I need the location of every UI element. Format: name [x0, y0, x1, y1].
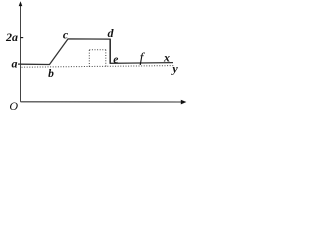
dotted rectangle right vertical [105, 50, 107, 67]
tick 2a [21, 37, 24, 39]
svg-text:d: d [108, 26, 115, 40]
y-axis arrowhead [19, 1, 23, 6]
svg-text:x: x [163, 51, 170, 65]
drop segment d-e (thicker) [109, 39, 111, 63]
svg-text:c: c [63, 28, 69, 42]
tick a [18, 63, 21, 65]
dotted baseline (level a) to y [22, 66, 175, 68]
svg-text:2a: 2a [5, 30, 18, 44]
x-axis [21, 101, 182, 103]
svg-text:O: O [9, 99, 18, 113]
svg-text:y: y [170, 62, 178, 76]
svg-text:b: b [48, 68, 54, 80]
x-axis arrowhead [181, 100, 187, 105]
y-axis [20, 5, 22, 102]
dotted rectangle left vertical [88, 50, 90, 67]
svg-text:a: a [12, 56, 18, 70]
dotted rectangle top horizontal [89, 49, 106, 51]
solid curve a-b-c-d-e-x [21, 39, 173, 65]
svg-text:e: e [113, 54, 118, 66]
